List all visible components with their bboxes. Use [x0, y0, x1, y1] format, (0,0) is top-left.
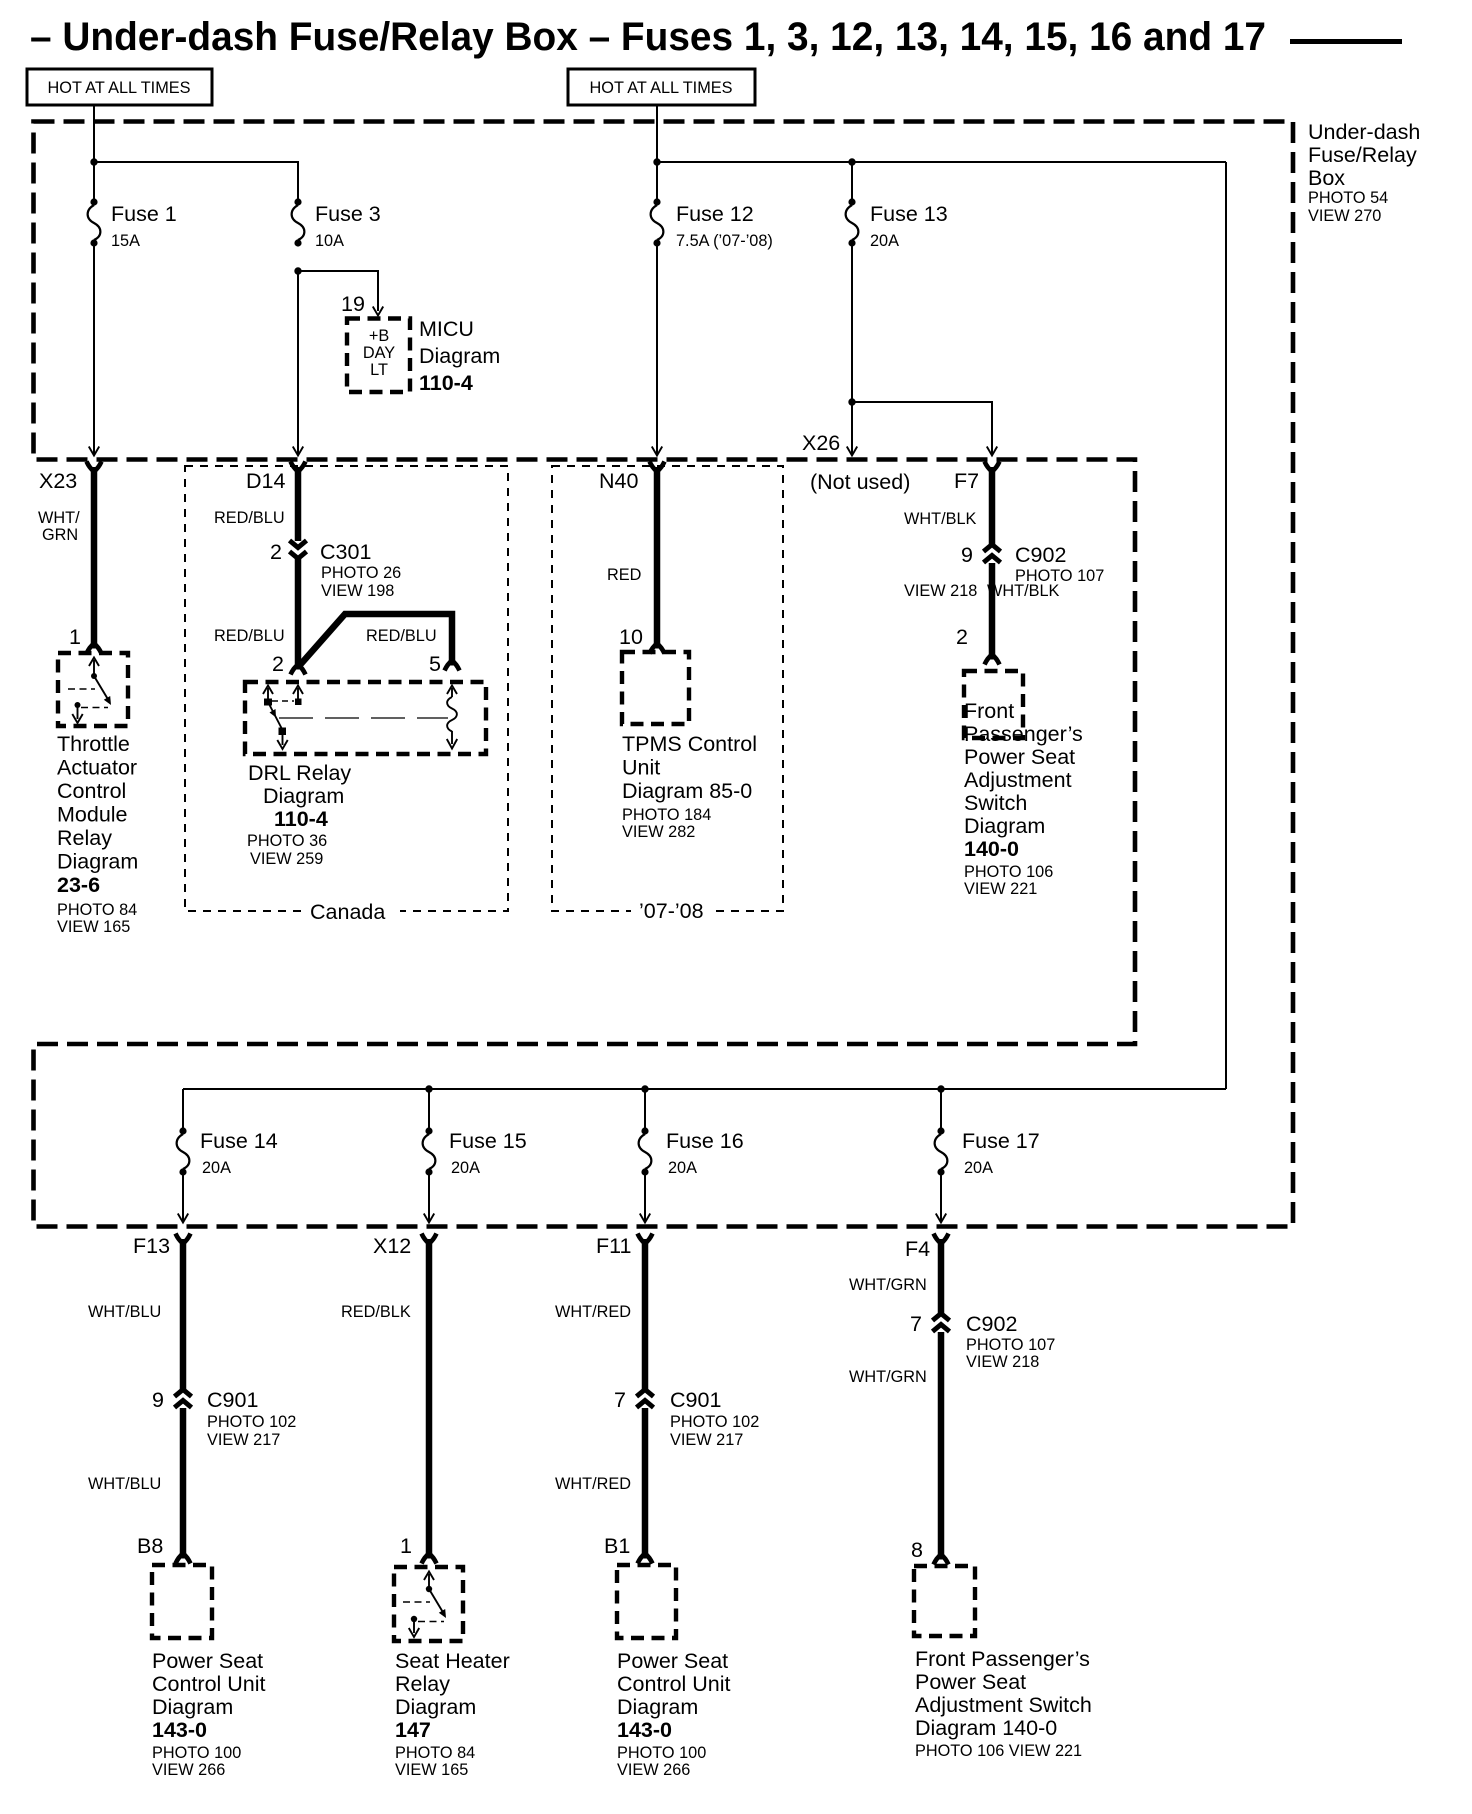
under-dash fuse/relay box outline [34, 122, 1294, 1227]
connector F13 [133, 1234, 191, 1259]
svg-text:20A: 20A [870, 232, 899, 250]
svg-text:110-4: 110-4 [274, 807, 328, 831]
wire fuse16 drop [644, 1089, 646, 1131]
svg-text:RED/BLK: RED/BLK [341, 1303, 411, 1321]
svg-text:15A: 15A [111, 232, 140, 250]
node junction below fuse 3 [294, 267, 301, 274]
svg-text:LT: LT [370, 361, 388, 379]
svg-text:Adjustment: Adjustment [964, 768, 1072, 792]
DRL relay box [245, 682, 486, 754]
svg-text:F11: F11 [596, 1234, 631, 1258]
connector at pin 8 [934, 1554, 949, 1565]
svg-text:– Under-dash Fuse/Relay Box –: – Under-dash Fuse/Relay Box – Fuses 1, 3… [30, 15, 1266, 59]
svg-text:Control Unit: Control Unit [617, 1672, 731, 1696]
svg-text:(Not used): (Not used) [810, 470, 910, 494]
svg-text:VIEW 165: VIEW 165 [395, 1761, 468, 1779]
svg-text:PHOTO 102: PHOTO 102 [670, 1413, 759, 1431]
svg-text:VIEW 282: VIEW 282 [622, 823, 695, 841]
label HOT AT ALL TIMES left [27, 69, 212, 105]
svg-text:C901: C901 [670, 1388, 721, 1412]
fuse F16 [639, 1127, 652, 1175]
node junction left feed [90, 158, 97, 165]
fuse F17 [935, 1127, 948, 1175]
svg-text:Diagram: Diagram [419, 344, 500, 368]
svg-text:PHOTO 107: PHOTO 107 [966, 1336, 1055, 1354]
connector D14 [246, 462, 306, 494]
wire to MICU pin 19 [298, 271, 378, 311]
svg-text:C902: C902 [966, 1312, 1017, 1336]
fuse F1 [88, 198, 101, 246]
svg-text:Diagram 85-0: Diagram 85-0 [622, 779, 752, 803]
connector at seat heater pin 1 [422, 1553, 437, 1564]
bus wire lower section [183, 1088, 1226, 1090]
wire fuse12 to N40 [656, 243, 658, 455]
svg-text:Unit: Unit [622, 756, 660, 780]
svg-text:Diagram: Diagram [617, 1695, 698, 1719]
wire WHT/BLU C901 to power seat control unit [180, 1408, 187, 1554]
svg-text:VIEW 266: VIEW 266 [617, 1761, 690, 1779]
svg-text:Adjustment Switch: Adjustment Switch [915, 1693, 1092, 1717]
svg-text:Relay: Relay [395, 1672, 450, 1696]
svg-text:TPMS Control: TPMS Control [622, 732, 757, 756]
svg-text:WHT/: WHT/ [38, 509, 80, 527]
svg-text:Fuse 1: Fuse 1 [111, 202, 177, 226]
svg-text:5: 5 [429, 652, 441, 676]
connector at pin B8 [176, 1553, 191, 1564]
svg-text:Front: Front [964, 699, 1014, 723]
wire WHT/GRN X23 to relay [91, 470, 98, 644]
connector F7 [954, 462, 1000, 494]
svg-text:X26: X26 [802, 431, 840, 455]
connector X12 [373, 1234, 437, 1259]
connector at DRL pin 2 [291, 664, 306, 675]
power seat control unit box 1 [152, 1565, 212, 1638]
svg-text:’07-’08: ’07-’08 [639, 899, 704, 923]
svg-text:2: 2 [270, 540, 282, 564]
svg-text:PHOTO 54: PHOTO 54 [1308, 189, 1388, 207]
connector X23 [39, 462, 102, 494]
svg-text:Diagram: Diagram [263, 784, 344, 808]
svg-text:F13: F13 [133, 1234, 170, 1258]
node junction fuse17 [937, 1085, 944, 1092]
svg-text:Fuse 12: Fuse 12 [676, 202, 754, 226]
svg-text:Diagram: Diagram [57, 850, 138, 874]
svg-text:N40: N40 [599, 469, 638, 493]
svg-text:B1: B1 [604, 1534, 630, 1558]
svg-text:PHOTO 100: PHOTO 100 [152, 1744, 241, 1762]
svg-text:23-6: 23-6 [57, 873, 100, 897]
svg-text:20A: 20A [964, 1159, 993, 1177]
svg-text:Diagram: Diagram [152, 1695, 233, 1719]
fuse F12 [651, 162, 852, 247]
wire fuse17 to F4 [940, 1172, 942, 1222]
node junction fuse16 [641, 1085, 648, 1092]
connector C901 second [614, 1388, 759, 1449]
front passenger switch box [964, 671, 1023, 738]
MICU box [347, 319, 410, 393]
svg-text:20A: 20A [451, 1159, 480, 1177]
wire WHT/GRN C902 to adjustment switch [938, 1332, 945, 1555]
wire fuse15 to X12 [428, 1172, 430, 1222]
label Power Seat Control Unit Diagram 143-0 second [617, 1649, 731, 1779]
TPMS control unit box [622, 652, 689, 724]
svg-text:20A: 20A [668, 1159, 697, 1177]
connector at switch pin 2 [985, 654, 1000, 665]
svg-text:Control Unit: Control Unit [152, 1672, 266, 1696]
wire WHT/BLK F7 to C902 [989, 470, 996, 545]
svg-text:Seat Heater: Seat Heater [395, 1649, 510, 1673]
svg-text:WHT/BLU: WHT/BLU [88, 1303, 161, 1321]
svg-text:WHT/BLK: WHT/BLK [904, 510, 977, 528]
connector C901 [152, 1388, 296, 1449]
wire RED/BLU C301 to DRL pin 2 [295, 559, 302, 664]
connector C902 [904, 543, 1104, 600]
connector F11 [596, 1234, 653, 1259]
svg-text:VIEW 218: VIEW 218 [966, 1353, 1039, 1371]
svg-text:1: 1 [69, 625, 81, 649]
connector N40 [599, 462, 665, 494]
throttle relay internals [68, 658, 111, 724]
svg-text:19: 19 [341, 292, 365, 316]
wire RED N40 to TPMS [654, 470, 661, 644]
svg-text:8: 8 [911, 1538, 923, 1562]
svg-text:C901: C901 [207, 1388, 258, 1412]
07-08 option box [552, 466, 783, 924]
wire branch to F7 [852, 402, 992, 455]
svg-text:PHOTO 100: PHOTO 100 [617, 1744, 706, 1762]
svg-text:B8: B8 [137, 1534, 163, 1558]
svg-text:PHOTO 106: PHOTO 106 [964, 863, 1053, 881]
svg-text:143-0: 143-0 [152, 1718, 207, 1742]
wire RED/BLU D14 to C301 [295, 470, 302, 541]
wire to X26 [851, 402, 853, 455]
connector at relay pin 1 [87, 643, 102, 654]
title rule [1290, 39, 1402, 44]
label Under-dash Fuse/Relay Box PHOTO 54 VIEW 270 [1308, 120, 1420, 225]
wire WHT/BLK C902 to switch [989, 563, 996, 655]
svg-text:F7: F7 [954, 469, 979, 493]
power seat control unit box 2 [617, 1565, 676, 1638]
svg-text:Switch: Switch [964, 791, 1027, 815]
wire WHT/GRN F4 to C902 [938, 1242, 945, 1314]
svg-text:PHOTO 102: PHOTO 102 [207, 1413, 296, 1431]
svg-text:Power Seat: Power Seat [152, 1649, 263, 1673]
label Front Passengers Power Seat Adjustment Switch second [915, 1647, 1092, 1760]
svg-text:WHT/GRN: WHT/GRN [849, 1276, 927, 1294]
wire long feed to lower section [1225, 162, 1227, 1089]
wire fuse16 to F11 [644, 1172, 646, 1222]
svg-text:Fuse 15: Fuse 15 [449, 1129, 527, 1153]
svg-text:7: 7 [614, 1388, 626, 1412]
svg-text:F4: F4 [905, 1237, 930, 1261]
node junction at fuse13 branch [848, 398, 855, 405]
svg-text:VIEW 270: VIEW 270 [1308, 207, 1381, 225]
label HOT AT ALL TIMES right [568, 69, 755, 105]
svg-text:Throttle: Throttle [57, 732, 130, 756]
svg-text:GRN: GRN [42, 526, 78, 544]
svg-text:D14: D14 [246, 469, 285, 493]
connector at DRL pin 5 [445, 660, 460, 671]
svg-text:C902: C902 [1015, 543, 1066, 567]
svg-text:RED: RED [607, 566, 641, 584]
svg-text:7: 7 [910, 1312, 922, 1336]
svg-text:Fuse 13: Fuse 13 [870, 202, 948, 226]
throttle actuator control module relay box [58, 653, 128, 726]
wire RED/BLK X12 to seat heater relay [426, 1242, 433, 1554]
svg-text:MICU: MICU [419, 317, 474, 341]
svg-text:DRL Relay: DRL Relay [248, 761, 351, 785]
svg-text:PHOTO 36: PHOTO 36 [247, 832, 327, 850]
svg-text:VIEW 221: VIEW 221 [964, 880, 1037, 898]
svg-text:PHOTO 106 VIEW 221: PHOTO 106 VIEW 221 [915, 1742, 1082, 1760]
svg-text:Box: Box [1308, 166, 1345, 190]
svg-text:Module: Module [57, 803, 128, 827]
svg-text:Fuse/Relay: Fuse/Relay [1308, 143, 1417, 167]
svg-text:140-0: 140-0 [964, 837, 1019, 861]
svg-text:RED/BLU: RED/BLU [214, 509, 285, 527]
DRL relay internals [263, 686, 457, 750]
wire RED/BLU branch to DRL pin 5 [300, 614, 452, 665]
connector C902 second [910, 1312, 1055, 1371]
svg-text:7.5A (’07-’08): 7.5A (’07-’08) [676, 232, 773, 250]
fuse F3 [292, 198, 305, 246]
svg-text:HOT AT ALL TIMES: HOT AT ALL TIMES [590, 79, 733, 97]
svg-text:10A: 10A [315, 232, 344, 250]
svg-text:20A: 20A [202, 1159, 231, 1177]
svg-text:RED/BLU: RED/BLU [214, 627, 285, 645]
wire fuse14 drop [182, 1089, 184, 1131]
wire left HOT feed [93, 105, 95, 202]
svg-text:147: 147 [395, 1718, 431, 1742]
svg-text:1: 1 [400, 1534, 412, 1558]
svg-text:RED/BLU: RED/BLU [366, 627, 437, 645]
svg-text:Passenger’s: Passenger’s [964, 722, 1083, 746]
svg-text:Relay: Relay [57, 826, 112, 850]
svg-text:10: 10 [619, 625, 643, 649]
svg-text:Fuse 17: Fuse 17 [962, 1129, 1040, 1153]
svg-text:WHT/GRN: WHT/GRN [849, 1368, 927, 1386]
label TPMS Control Unit Diagram 85-0 [622, 732, 757, 841]
connector at pin B1 [638, 1553, 653, 1564]
svg-text:Control: Control [57, 779, 126, 803]
label DRL Relay Diagram 110-4 [247, 761, 351, 868]
wire fuse13 down [851, 243, 853, 402]
svg-text:Fuse 3: Fuse 3 [315, 202, 381, 226]
svg-text:C301: C301 [320, 540, 371, 564]
seat heater relay box [394, 1567, 463, 1641]
svg-text:PHOTO 84: PHOTO 84 [57, 901, 137, 919]
wire fuse3 to D14 [297, 271, 299, 455]
svg-text:Front Passenger’s: Front Passenger’s [915, 1647, 1090, 1671]
wire WHT/RED C901 to power seat control unit [642, 1408, 649, 1554]
svg-text:VIEW 217: VIEW 217 [207, 1431, 280, 1449]
svg-text:VIEW 266: VIEW 266 [152, 1761, 225, 1779]
svg-text:WHT/BLK: WHT/BLK [987, 582, 1060, 600]
fuse F13 [846, 198, 859, 246]
svg-text:PHOTO 26: PHOTO 26 [321, 564, 401, 582]
label Seat Heater Relay Diagram 147 [395, 1649, 510, 1779]
svg-text:X23: X23 [39, 469, 77, 493]
label MICU Diagram 110-4 [419, 317, 500, 395]
fuse F15 [423, 1127, 436, 1175]
seat heater relay internals [403, 1572, 446, 1638]
svg-text:Diagram: Diagram [395, 1695, 476, 1719]
svg-text:PHOTO 84: PHOTO 84 [395, 1744, 475, 1762]
wire fuse17 drop [940, 1089, 942, 1131]
svg-text:Under-dash: Under-dash [1308, 120, 1420, 144]
svg-text:9: 9 [961, 543, 973, 567]
Canada option box [185, 466, 508, 924]
svg-text:+B: +B [369, 327, 389, 345]
label Throttle Actuator Control Module Relay Diagram 23-6 [57, 732, 138, 936]
svg-text:WHT/RED: WHT/RED [555, 1475, 631, 1493]
svg-text:DAY: DAY [363, 344, 395, 362]
svg-text:Canada: Canada [310, 900, 385, 924]
svg-text:HOT AT ALL TIMES: HOT AT ALL TIMES [48, 79, 191, 97]
connector F4 [905, 1234, 949, 1262]
svg-text:VIEW 218: VIEW 218 [904, 582, 977, 600]
fuse F14 [177, 1127, 190, 1175]
node junction right feed [653, 158, 660, 165]
svg-text:VIEW 217: VIEW 217 [670, 1431, 743, 1449]
wire fuse15 drop [428, 1089, 430, 1131]
label Front Passengers Power Seat Adjustment Switch Diagram 140-0 [964, 699, 1083, 898]
connector at TPMS pin 10 [650, 643, 665, 654]
label Power Seat Control Unit Diagram 143-0 [152, 1649, 266, 1779]
svg-text:2: 2 [956, 625, 968, 649]
wire WHT/BLU F13 to C901 [180, 1242, 187, 1390]
svg-text:9: 9 [152, 1388, 164, 1412]
wire WHT/RED F11 to C901 [642, 1242, 649, 1390]
svg-text:Fuse 14: Fuse 14 [200, 1129, 278, 1153]
node junction fuse15 [425, 1085, 432, 1092]
svg-text:PHOTO 184: PHOTO 184 [622, 806, 711, 824]
svg-text:Diagram: Diagram [964, 814, 1045, 838]
svg-text:2: 2 [272, 652, 284, 676]
svg-text:WHT/BLU: WHT/BLU [88, 1475, 161, 1493]
svg-text:VIEW 198: VIEW 198 [321, 582, 394, 600]
wire fuse1 to X23 [93, 243, 95, 455]
node junction at fuse 13 [848, 158, 855, 165]
svg-text:VIEW 259: VIEW 259 [250, 850, 323, 868]
svg-text:VIEW 165: VIEW 165 [57, 918, 130, 936]
svg-text:Power Seat: Power Seat [915, 1670, 1026, 1694]
svg-text:X12: X12 [373, 1234, 411, 1258]
connector X26 not used [802, 431, 910, 494]
wire fuse14 to F13 [182, 1172, 184, 1222]
wire right HOT feed [656, 105, 658, 202]
connector C301 [270, 540, 401, 600]
bus wire across top [657, 161, 1226, 163]
front passenger switch box 2 [914, 1566, 975, 1636]
wire branch to fuse 3 [94, 162, 298, 202]
svg-text:Actuator: Actuator [57, 756, 137, 780]
svg-text:143-0: 143-0 [617, 1718, 672, 1742]
svg-text:WHT/RED: WHT/RED [555, 1303, 631, 1321]
svg-text:110-4: 110-4 [419, 371, 473, 395]
svg-text:Power Seat: Power Seat [617, 1649, 728, 1673]
svg-text:Power Seat: Power Seat [964, 745, 1075, 769]
svg-text:Fuse 16: Fuse 16 [666, 1129, 744, 1153]
svg-text:Diagram 140-0: Diagram 140-0 [915, 1716, 1057, 1740]
